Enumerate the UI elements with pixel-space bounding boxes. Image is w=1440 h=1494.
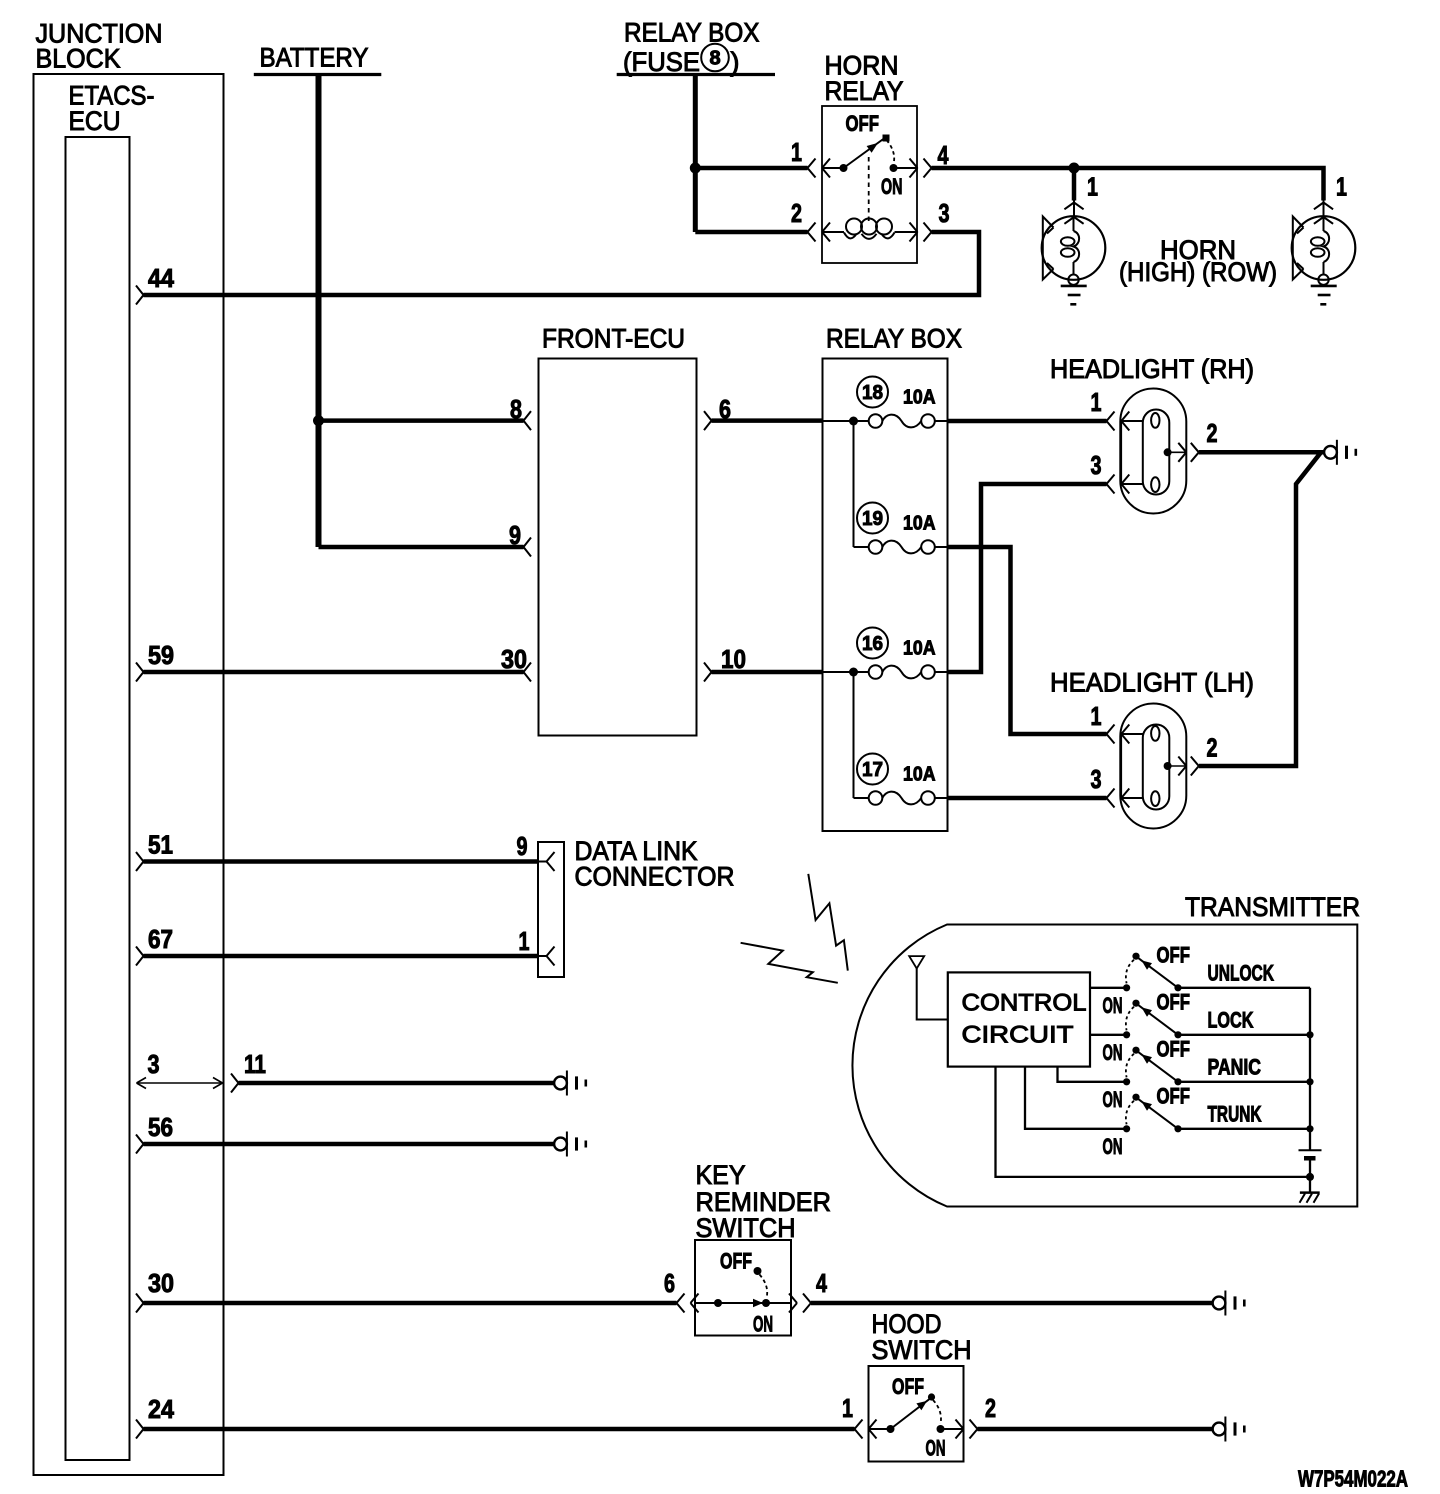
svg-text:3: 3 xyxy=(1091,450,1102,480)
junction dot horn high feed xyxy=(1069,163,1080,174)
svg-text:HEADLIGHT (LH): HEADLIGHT (LH) xyxy=(1050,668,1254,698)
ETACS pin 59 label xyxy=(148,640,174,670)
hood switch box xyxy=(869,1366,964,1462)
fuse 16 10A xyxy=(823,628,948,679)
junction block box xyxy=(34,74,224,1475)
JB pin 11 connector xyxy=(231,1074,239,1093)
FRONT-ECU box xyxy=(539,359,697,736)
headlight RH pin3 connector xyxy=(1107,475,1130,494)
relay box fuse-8 label xyxy=(623,18,760,78)
wire fuse18 to headlight RH pin1 xyxy=(948,419,1107,424)
ETACS pin 3 label xyxy=(148,1049,160,1079)
KRS pin 4 label xyxy=(816,1268,827,1298)
wire fuse8 to horn relay pin 1 xyxy=(695,166,807,171)
svg-text:OFF: OFF xyxy=(720,1249,752,1274)
PANIC OFF label xyxy=(1157,1037,1191,1062)
horn relay pin 2 label xyxy=(791,198,802,228)
svg-text:ON: ON xyxy=(1103,993,1123,1018)
TRUNK label xyxy=(1208,1102,1263,1127)
wire fuse8 to horn relay pin 2 xyxy=(695,230,807,235)
headlight RH pin1 label xyxy=(1091,387,1102,417)
hood switch contacts xyxy=(869,1393,936,1433)
hood switch pin 2 connector xyxy=(956,1420,978,1439)
svg-text:18: 18 xyxy=(862,382,883,404)
wire drop to horn high xyxy=(1072,168,1077,201)
horn relay switch arm xyxy=(844,135,890,169)
horn relay pin 4 label xyxy=(938,140,949,170)
svg-text:1: 1 xyxy=(1091,701,1102,731)
svg-text:30: 30 xyxy=(501,644,527,674)
KRS pin 4 connector xyxy=(789,1294,811,1313)
horn (row) pin 1 label xyxy=(1336,172,1347,202)
ETACS pin 44 label xyxy=(148,263,174,293)
svg-text:RELAY: RELAY xyxy=(825,76,904,106)
wire ETACS 30 to key reminder switch xyxy=(144,1301,677,1306)
svg-text:BATTERY: BATTERY xyxy=(260,43,369,73)
headlight LH pin1 connector xyxy=(1107,725,1130,744)
svg-text:CONTROL: CONTROL xyxy=(962,990,1087,1017)
UNLOCK OFF label xyxy=(1157,943,1191,968)
svg-text:2: 2 xyxy=(791,198,802,228)
horn relay ON label xyxy=(881,174,903,199)
svg-text:ON: ON xyxy=(1103,1134,1123,1159)
wire FRONT-ECU 6 to relay box xyxy=(712,418,823,423)
headlight RH pin1 connector xyxy=(1107,412,1130,431)
switch LOCK xyxy=(1123,1000,1310,1039)
transmitter outline xyxy=(852,925,1357,1207)
svg-text:30: 30 xyxy=(148,1268,174,1298)
horn relay label xyxy=(825,51,904,107)
svg-text:8: 8 xyxy=(510,394,522,424)
ETACS-ECU box xyxy=(66,137,130,1460)
svg-text:TRANSMITTER: TRANSMITTER xyxy=(1185,892,1360,922)
wire JB 11 to ground xyxy=(239,1081,555,1086)
headlight RH pin2 label xyxy=(1207,418,1218,448)
svg-text:10: 10 xyxy=(721,644,746,674)
ETACS pin 67 label xyxy=(148,924,173,954)
svg-text:4: 4 xyxy=(816,1268,827,1298)
svg-text:ON: ON xyxy=(881,174,903,199)
svg-text:FRONT-ECU: FRONT-ECU xyxy=(542,324,685,354)
key reminder switch box xyxy=(695,1240,791,1336)
control circuit label xyxy=(962,990,1087,1049)
UNLOCK ON label xyxy=(1103,993,1123,1018)
ETACS pin 24 label xyxy=(148,1394,174,1424)
ETACS-ECU label xyxy=(69,81,155,137)
PANIC label xyxy=(1208,1055,1262,1080)
svg-text:2: 2 xyxy=(1207,418,1218,448)
svg-text:19: 19 xyxy=(862,508,883,530)
hood switch pin 1 connector xyxy=(855,1420,877,1439)
radio wave flash 2 xyxy=(741,943,838,983)
horn (high) xyxy=(1042,216,1106,304)
svg-text:1: 1 xyxy=(1091,387,1102,417)
svg-text:OFF: OFF xyxy=(1157,1084,1191,1109)
FRONT-ECU pin 10 connector xyxy=(704,663,712,682)
svg-text:LOCK: LOCK xyxy=(1208,1008,1255,1033)
wire hood switch 2 to ground xyxy=(978,1427,1213,1432)
horn (high) pin 1 label xyxy=(1087,172,1098,202)
headlight LH pin1 label xyxy=(1091,701,1102,731)
wire ETACS 24 to hood switch xyxy=(144,1427,855,1432)
svg-text:24: 24 xyxy=(148,1394,174,1424)
headlight LH pin3 label xyxy=(1091,764,1102,794)
headlight RH pin3 label xyxy=(1091,450,1102,480)
svg-text:59: 59 xyxy=(148,640,174,670)
svg-text:3: 3 xyxy=(148,1049,160,1079)
hood switch ON label xyxy=(926,1436,946,1461)
horn relay contact pin1 xyxy=(822,164,848,172)
svg-text:PANIC: PANIC xyxy=(1208,1055,1262,1080)
antenna xyxy=(909,956,948,1019)
horn relay box xyxy=(822,106,917,263)
svg-text:10A: 10A xyxy=(903,764,936,786)
svg-text:10A: 10A xyxy=(903,513,936,535)
ground pin 56 xyxy=(554,1132,586,1157)
junction dot bus LOCK xyxy=(1306,1031,1313,1038)
switch TRUNK xyxy=(1123,1094,1310,1133)
FRONT-ECU pin 8 connector xyxy=(524,411,532,430)
svg-text:UNLOCK: UNLOCK xyxy=(1208,961,1275,986)
headlight RH label xyxy=(1050,354,1254,384)
svg-text:11: 11 xyxy=(244,1049,266,1079)
horn (row) xyxy=(1292,216,1356,304)
svg-text:W7P54M022A: W7P54M022A xyxy=(1298,1466,1408,1492)
svg-text:3: 3 xyxy=(1091,764,1102,794)
junction dot bus ground xyxy=(1306,1173,1314,1181)
horn relay pin 1 connector xyxy=(808,159,831,178)
svg-text:6: 6 xyxy=(664,1268,675,1298)
wire fuse19 to headlight LH pin1 xyxy=(948,547,1107,734)
junction dot bus PANIC xyxy=(1306,1078,1313,1085)
svg-text:CIRCUIT: CIRCUIT xyxy=(962,1022,1074,1049)
JB internal link 3-11 xyxy=(137,1078,223,1089)
KRS dashed throw arc xyxy=(760,1275,768,1299)
ETACS pin 51 label xyxy=(148,830,173,860)
junction dot fuse16/17 xyxy=(849,668,858,677)
wire KRS 4 to ground xyxy=(811,1301,1213,1306)
svg-text:8: 8 xyxy=(709,48,720,70)
wire ETACS 67 to DLC 1 xyxy=(144,954,539,959)
svg-text:ON: ON xyxy=(1103,1087,1123,1112)
svg-text:2: 2 xyxy=(1207,733,1218,763)
svg-text:17: 17 xyxy=(862,759,883,781)
svg-text:3: 3 xyxy=(939,198,950,228)
hood switch label xyxy=(872,1309,972,1365)
wire fuse18 to fuse19 xyxy=(854,421,869,547)
DLC pin 9 connector xyxy=(538,852,555,871)
battery terminal bar xyxy=(254,73,381,76)
battery label xyxy=(260,43,369,73)
ETACS pin 24 connector xyxy=(136,1420,144,1439)
ground pin 11 xyxy=(554,1071,586,1096)
junction dot fuse8/horn-relay pin1 xyxy=(690,163,701,174)
svg-text:TRUNK: TRUNK xyxy=(1208,1102,1263,1127)
DLC pin 1 connector xyxy=(538,947,555,966)
svg-text:67: 67 xyxy=(148,924,173,954)
headlight LH pin2 label xyxy=(1207,733,1218,763)
headlight LH pin3 connector xyxy=(1107,789,1130,808)
FRONT-ECU pin 30 label xyxy=(501,644,527,674)
switch PANIC xyxy=(1123,1047,1310,1086)
svg-text:SWITCH: SWITCH xyxy=(872,1335,972,1365)
svg-text:HEADLIGHT (RH): HEADLIGHT (RH) xyxy=(1050,354,1254,384)
fuse 18 10A xyxy=(823,377,948,428)
horn relay dashed throw arc xyxy=(887,140,895,164)
TRUNK OFF label xyxy=(1157,1084,1191,1109)
FRONT-ECU pin 9 label xyxy=(509,520,521,550)
svg-text:10A: 10A xyxy=(903,638,936,660)
horn relay ON contact xyxy=(890,164,918,172)
KRS OFF label xyxy=(720,1249,752,1274)
wire CC to PANIC switch xyxy=(1058,1067,1127,1082)
ETACS pin 30 label xyxy=(148,1268,174,1298)
relay box fuse-8 bar xyxy=(617,73,775,76)
wire FRONT-ECU 10 to relay box xyxy=(712,670,823,675)
hood switch pin 2 label xyxy=(985,1393,996,1423)
ETACS pin 44 connector xyxy=(136,286,144,305)
FRONT-ECU pin 8 label xyxy=(510,394,522,424)
svg-text:RELAY BOX: RELAY BOX xyxy=(826,324,962,354)
junction dot bus TRUNK xyxy=(1306,1125,1313,1132)
ETACS pin 67 connector xyxy=(136,947,144,966)
svg-text:ON: ON xyxy=(753,1312,773,1337)
fuse 17 10A xyxy=(857,754,948,805)
relay box box xyxy=(823,359,948,832)
svg-text:KEY: KEY xyxy=(696,1160,746,1190)
KRS ON label xyxy=(753,1312,773,1337)
horn relay OFF label xyxy=(846,111,880,136)
drawing number xyxy=(1298,1466,1408,1492)
svg-text:OFF: OFF xyxy=(846,111,880,136)
hood switch ON contact xyxy=(937,1425,964,1433)
FRONT-ECU pin 6 connector xyxy=(704,411,712,430)
svg-text:ON: ON xyxy=(926,1436,946,1461)
control circuit box xyxy=(948,972,1090,1066)
ETACS pin 51 connector xyxy=(136,852,144,871)
transmitter chassis ground xyxy=(1300,1193,1320,1203)
svg-text:1: 1 xyxy=(1087,172,1098,202)
wire fuse-8 feed xyxy=(693,75,698,233)
headlight LH bulb xyxy=(1120,704,1186,829)
wire headlight RH pin2 to ground xyxy=(1199,450,1324,455)
FRONT-ECU pin 6 label xyxy=(719,394,731,424)
relay box label xyxy=(826,324,962,354)
svg-text:): ) xyxy=(731,47,740,77)
svg-text:SWITCH: SWITCH xyxy=(696,1213,796,1243)
svg-text:56: 56 xyxy=(148,1112,173,1142)
svg-text:10A: 10A xyxy=(903,387,936,409)
wire CC to TRUNK switch xyxy=(1025,1067,1127,1129)
horn relay pin 2 connector xyxy=(808,223,831,242)
transmitter battery xyxy=(1299,1150,1322,1160)
horn relay pin 1 label xyxy=(791,137,802,167)
LOCK ON label xyxy=(1103,1040,1123,1065)
headlight LH pin2 connector xyxy=(1178,757,1199,776)
svg-text:OFF: OFF xyxy=(1157,1037,1191,1062)
ground key reminder switch xyxy=(1213,1291,1245,1316)
svg-text:16: 16 xyxy=(862,633,883,655)
horn relay coil xyxy=(822,219,917,239)
svg-text:ON: ON xyxy=(1103,1040,1123,1065)
ground headlights xyxy=(1324,440,1356,465)
svg-text:OFF: OFF xyxy=(1157,990,1191,1015)
transmitter label xyxy=(1185,892,1360,922)
svg-text:ECU: ECU xyxy=(69,106,121,136)
svg-text:44: 44 xyxy=(148,263,174,293)
battery feed wire xyxy=(316,75,322,548)
svg-text:RELAY BOX: RELAY BOX xyxy=(624,18,760,48)
horn (high) pin 1 connector xyxy=(1064,201,1083,224)
svg-text:1: 1 xyxy=(842,1393,853,1423)
wire battery to FRONT-ECU pin 9 xyxy=(319,545,524,550)
hood switch OFF label xyxy=(892,1374,924,1399)
FRONT-ECU pin 9 connector xyxy=(524,538,532,557)
horn relay pin 4 connector xyxy=(910,159,932,178)
wire CC ground return xyxy=(996,1067,1311,1177)
headlight RH bulb xyxy=(1120,389,1186,514)
KRS pin 6 connector xyxy=(677,1294,699,1313)
svg-text:CONNECTOR: CONNECTOR xyxy=(575,862,735,892)
wire fuse16 to headlight RH pin3 xyxy=(948,484,1107,672)
FRONT-ECU pin 10 label xyxy=(721,644,746,674)
junction block label xyxy=(36,19,163,74)
ETACS pin 30 connector xyxy=(136,1294,144,1313)
KRS pin 6 label xyxy=(664,1268,675,1298)
svg-text:1: 1 xyxy=(791,137,802,167)
hood switch pin 1 label xyxy=(842,1393,853,1423)
svg-text:1: 1 xyxy=(1336,172,1347,202)
switch UNLOCK xyxy=(1123,953,1310,992)
hood switch dashed throw arc xyxy=(933,1400,941,1424)
svg-text:OFF: OFF xyxy=(1157,943,1191,968)
LOCK label xyxy=(1208,1008,1255,1033)
key reminder switch label xyxy=(696,1160,832,1243)
wire fuse17 to headlight LH pin3 xyxy=(948,796,1107,801)
junction dot fuse18/19 xyxy=(849,417,858,426)
radio wave flash 1 xyxy=(808,874,848,971)
junction dot battery/pin8 xyxy=(313,415,324,426)
KRS contacts xyxy=(695,1299,791,1307)
LOCK OFF label xyxy=(1157,990,1191,1015)
svg-text:2: 2 xyxy=(985,1393,996,1423)
wire ETACS 51 to DLC 9 xyxy=(144,859,539,864)
data link connector label xyxy=(575,836,735,892)
wire headlight LH pin2 to ground xyxy=(1199,452,1321,766)
svg-text:9: 9 xyxy=(509,520,521,550)
DLC box xyxy=(538,842,564,977)
svg-text:OFF: OFF xyxy=(892,1374,924,1399)
transmitter bus wire xyxy=(1309,988,1311,1193)
wire horn relay pin3 to ETACS pin 44 xyxy=(144,232,980,295)
horn relay coil dashed link xyxy=(868,157,870,222)
ETACS pin 56 connector xyxy=(136,1135,144,1154)
horn relay pin 3 connector xyxy=(910,223,932,242)
headlight RH pin2 connector xyxy=(1178,443,1199,462)
svg-text:51: 51 xyxy=(148,830,173,860)
svg-text:BLOCK: BLOCK xyxy=(36,44,121,74)
svg-text:9: 9 xyxy=(517,831,528,861)
DLC pin 1 label xyxy=(519,926,530,956)
ground hood switch xyxy=(1213,1417,1245,1442)
TRUNK ON label xyxy=(1103,1134,1123,1159)
PANIC ON label xyxy=(1103,1087,1123,1112)
wire CC to LOCK switch xyxy=(1090,1034,1127,1036)
wire CC to UNLOCK switch xyxy=(1090,987,1127,989)
ETACS pin 56 label xyxy=(148,1112,173,1142)
svg-text:4: 4 xyxy=(938,140,949,170)
DLC pin 9 label xyxy=(517,831,528,861)
svg-text:(HIGH) (ROW): (HIGH) (ROW) xyxy=(1119,257,1277,287)
headlight LH label xyxy=(1050,668,1254,698)
JB pin 11 label xyxy=(244,1049,266,1079)
ETACS pin 59 connector xyxy=(136,663,144,682)
horn relay pin 3 label xyxy=(939,198,950,228)
wire battery to FRONT-ECU pin 8 xyxy=(319,418,524,423)
wire ETACS 59 to FRONT-ECU 30 xyxy=(144,670,524,675)
FRONT-ECU pin 30 connector xyxy=(524,663,532,682)
wire ETACS 56 to ground xyxy=(144,1142,555,1147)
svg-text:1: 1 xyxy=(519,926,530,956)
svg-text:(FUSE: (FUSE xyxy=(623,47,700,77)
KRS OFF contact xyxy=(754,1267,762,1275)
fuse 19 10A xyxy=(857,503,948,554)
wire horn relay pin4 to horns xyxy=(932,168,1324,201)
wire fuse16 to fuse17 xyxy=(854,672,869,798)
horn (row) pin 1 connector xyxy=(1314,201,1333,224)
FRONT-ECU label xyxy=(542,324,685,354)
horn label xyxy=(1119,235,1277,287)
UNLOCK label xyxy=(1208,961,1275,986)
